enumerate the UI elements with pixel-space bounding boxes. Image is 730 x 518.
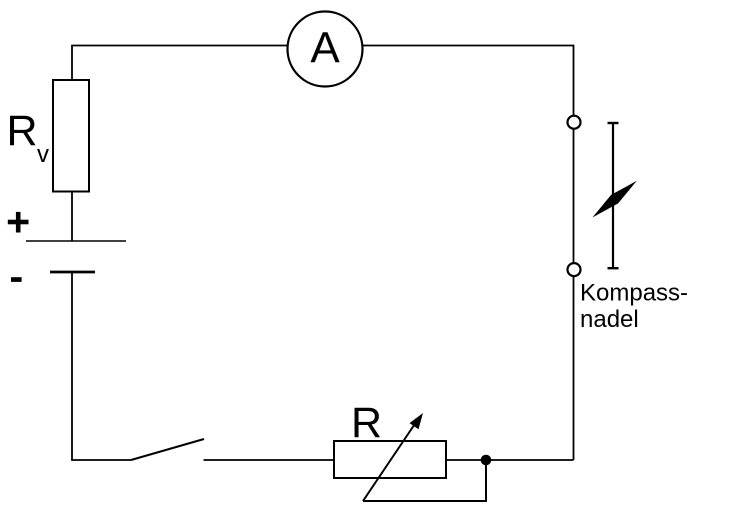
junction dot: [481, 455, 492, 466]
wire: rheostat right to junction: [446, 459, 486, 461]
svg-text:nadel: nadel: [580, 306, 639, 333]
battery B1 positive plate: [26, 240, 126, 242]
wire: right side lower segment: [573, 276, 575, 460]
wire: junction down and left to wiper tail: [363, 460, 486, 501]
label minus: [11, 277, 22, 282]
compass axis bottom tick: [608, 267, 619, 269]
resistor Rv: [53, 80, 89, 192]
svg-text:Kompass-: Kompass-: [580, 280, 688, 307]
wire: battery negative to bottom-left corner: [72, 272, 131, 460]
label Rv: [7, 107, 50, 168]
battery B1 negative plate: [50, 271, 95, 274]
wire: right side middle segment: [573, 129, 575, 263]
switch S1 blade: [131, 439, 204, 460]
ammeter U1: [288, 12, 363, 87]
wire: switch fixed contact to rheostat left: [204, 459, 335, 461]
label Kompassnadel: [580, 280, 688, 334]
svg-text:R: R: [7, 107, 38, 155]
label plus: [8, 212, 29, 233]
terminal upper (open circle): [568, 116, 581, 129]
rheostat R wiper arrow: [363, 413, 423, 501]
wire top-right: ammeter right to upper terminal: [363, 46, 574, 116]
wire: Rv bottom to battery positive plate: [71, 192, 73, 242]
svg-text:R: R: [351, 399, 382, 447]
terminal lower (open circle): [568, 263, 581, 276]
svg-text:A: A: [310, 24, 340, 73]
svg-text:v: v: [37, 141, 49, 168]
compass needle: [592, 181, 636, 218]
wire top-left: Rv top to ammeter left: [72, 46, 288, 82]
compass pivot axis line: [612, 124, 614, 269]
wire: junction to bottom-right corner up right side: [486, 459, 574, 461]
compass axis top tick: [608, 122, 619, 124]
rheostat R body: [334, 441, 446, 478]
